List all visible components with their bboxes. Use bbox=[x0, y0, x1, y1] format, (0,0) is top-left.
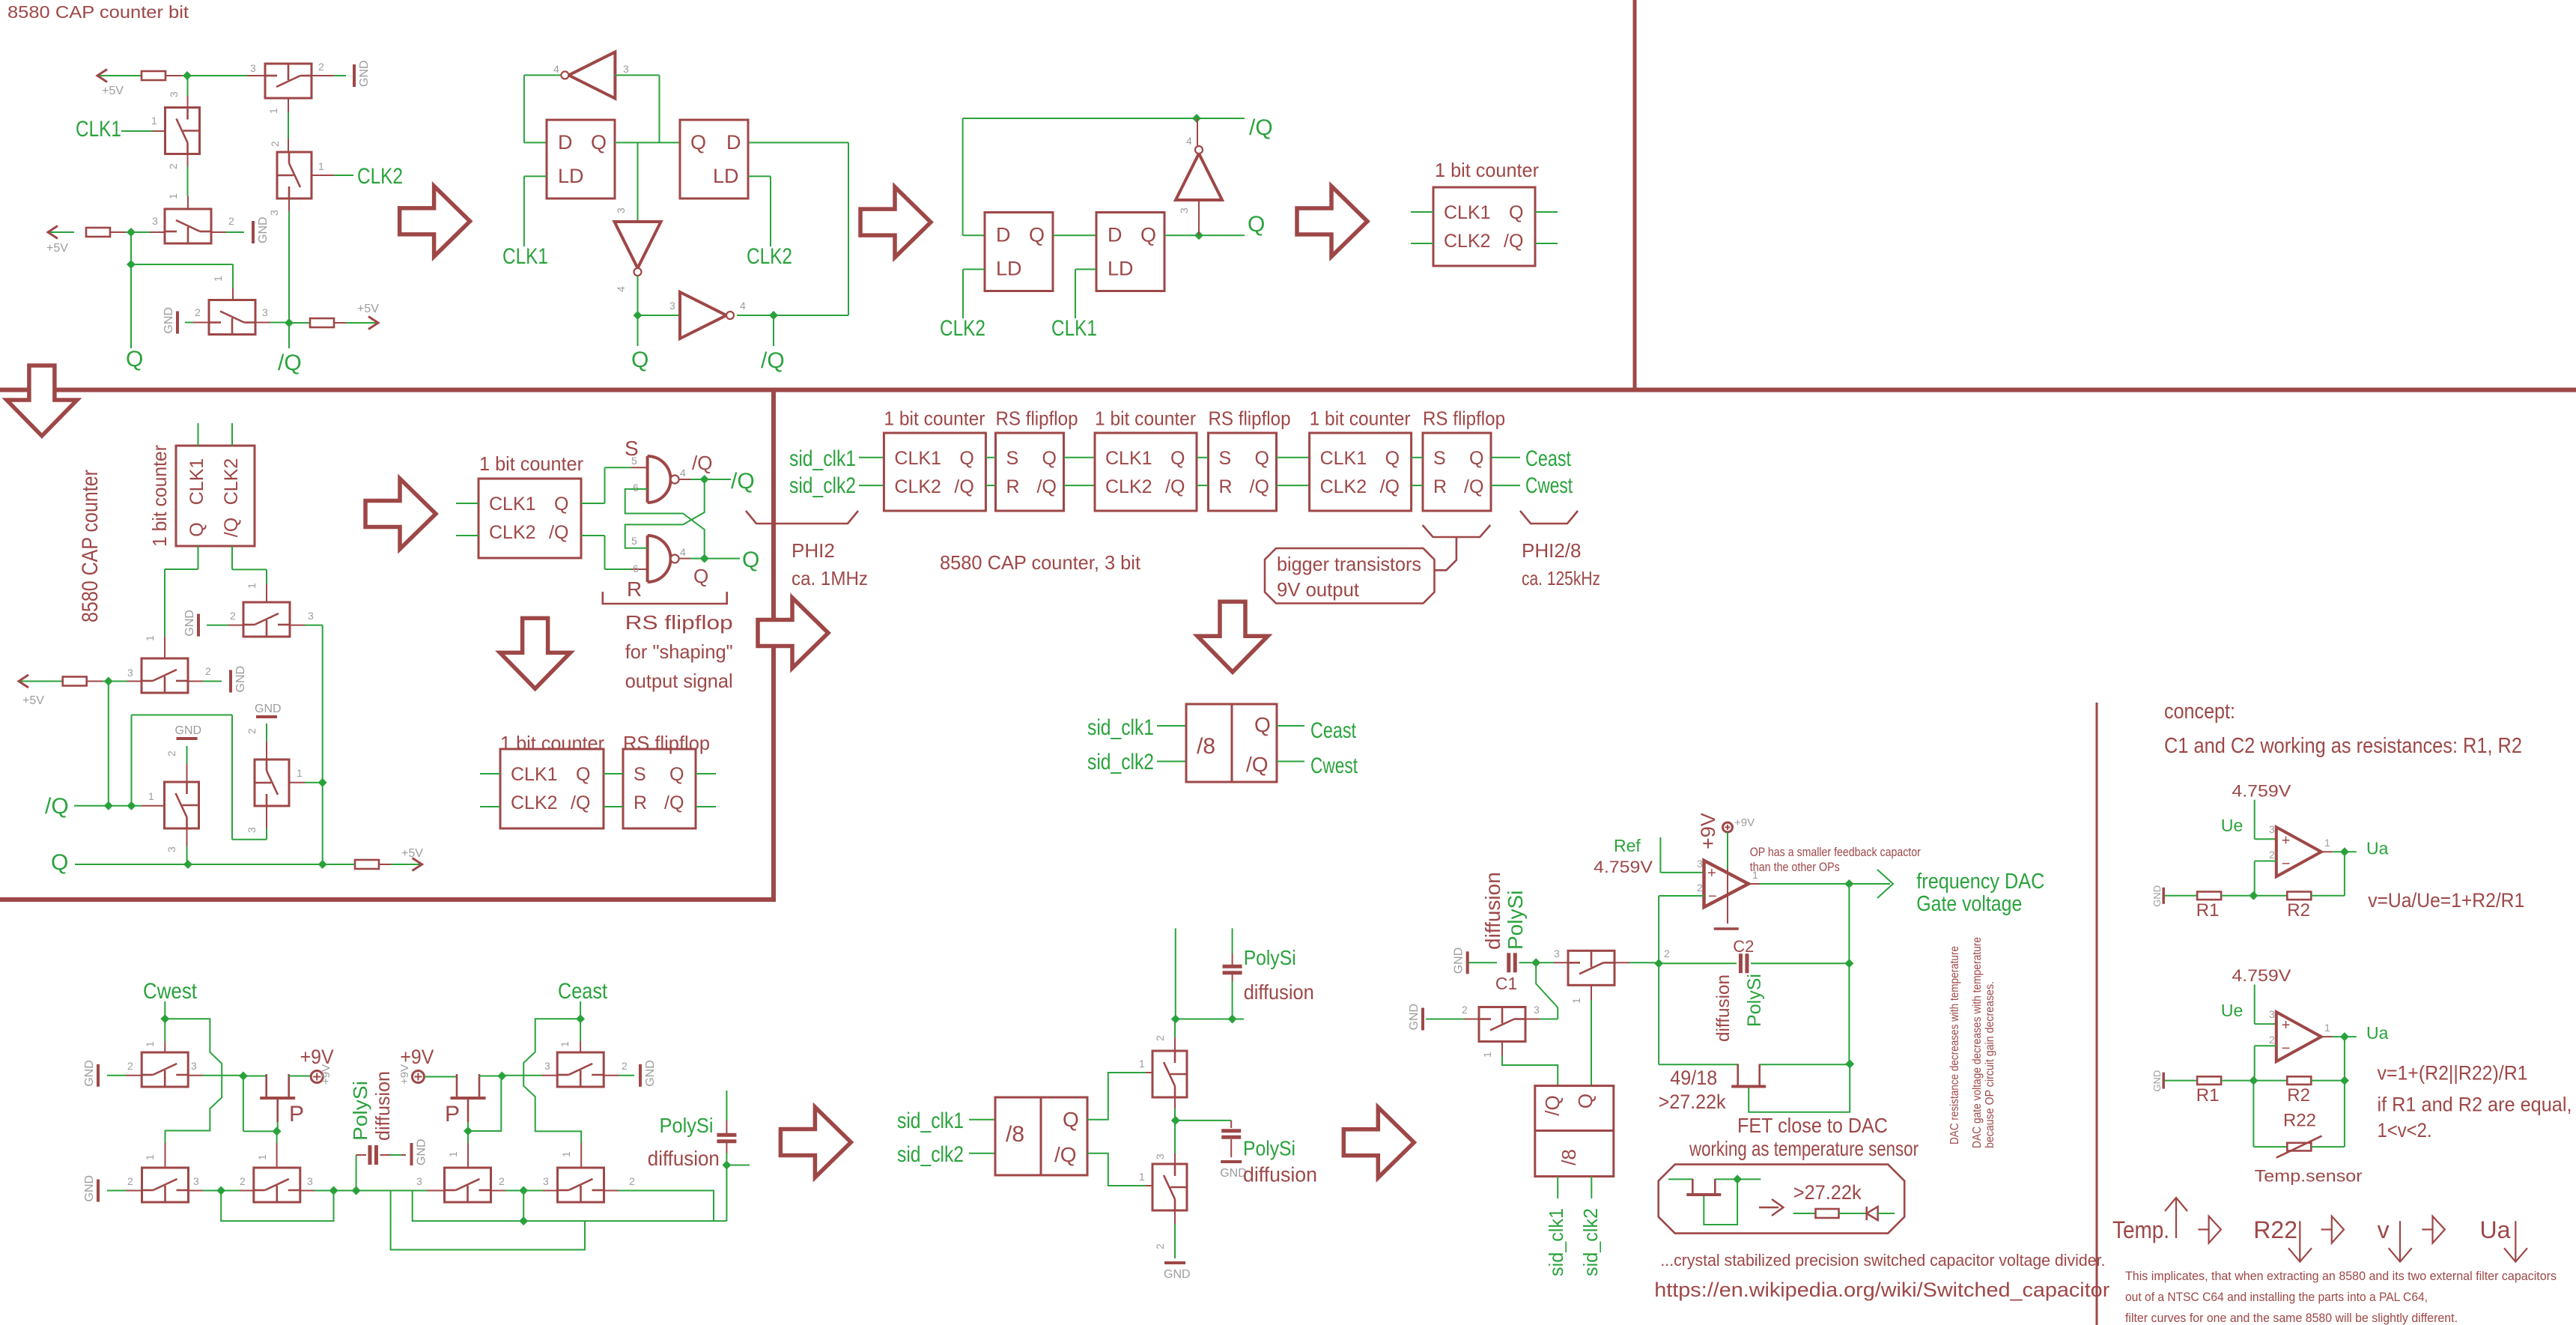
wire brace PHI2/8 bbox=[1520, 511, 1578, 524]
transistor switch O bbox=[254, 1168, 300, 1202]
block octagon temperature sensor note bbox=[1659, 1165, 1905, 1234]
wire switch O pin3 to junction J5 bbox=[300, 1190, 315, 1192]
svg-text:2: 2 bbox=[2269, 1034, 2275, 1046]
ground GND-P1 bbox=[639, 1064, 642, 1087]
wire /Q rail down to latch3 D bbox=[962, 118, 964, 235]
wire latch1 LD to CLK1 bbox=[524, 175, 547, 177]
transistor switch C (CLK1 pass gate) bbox=[165, 108, 200, 154]
svg-text:because OP circuit gain decrea: because OP circuit gain decreases. bbox=[1984, 981, 1996, 1148]
svg-text:GND: GND bbox=[234, 666, 247, 693]
wire switch K pin2 left to GND bbox=[228, 625, 243, 626]
node junction /Q rail bbox=[1192, 114, 1201, 123]
svg-text:1: 1 bbox=[212, 276, 224, 282]
node junction row2 bbox=[127, 228, 136, 237]
svg-text:https://en.wikipedia.org/wiki/: https://en.wikipedia.org/wiki/Switched_c… bbox=[1654, 1279, 2109, 1301]
svg-text:1 bit counter: 1 bit counter bbox=[500, 732, 604, 754]
wire R2 to output vertical bbox=[2311, 1080, 2345, 1082]
svg-text:GND: GND bbox=[255, 703, 282, 715]
svg-text:+: + bbox=[2282, 1017, 2291, 1034]
svg-text:GND: GND bbox=[416, 1138, 428, 1165]
supply arrow +5V row1 bbox=[97, 70, 107, 82]
wire middle cap right to GND bbox=[380, 1154, 391, 1156]
svg-text:C2: C2 bbox=[1733, 937, 1754, 956]
wire counter Q to nand S pin5 bbox=[581, 503, 605, 504]
svg-text:than the other OPs: than the other OPs bbox=[1750, 860, 1840, 874]
node junction4 on /Q rail bbox=[285, 318, 294, 327]
node junction output concept bbox=[2340, 1032, 2349, 1041]
svg-text:Cwest: Cwest bbox=[1310, 754, 1358, 778]
block RS flipflop chain1 bbox=[996, 433, 1064, 511]
wire inverter2 output down to Q node bbox=[637, 276, 639, 315]
wire junction to R2 bbox=[2253, 1080, 2287, 1082]
wire div8 /Q to Cwest bbox=[1277, 761, 1304, 762]
svg-text:Q: Q bbox=[669, 764, 684, 785]
svg-text:2: 2 bbox=[127, 1060, 133, 1072]
svg-text:CLK1: CLK1 bbox=[1444, 202, 1491, 223]
svg-text:LD: LD bbox=[1108, 258, 1134, 280]
node junction mini FET bbox=[1733, 1174, 1742, 1183]
wire FET right leg to junction bbox=[1760, 1064, 1850, 1065]
svg-text:Ceast: Ceast bbox=[558, 979, 608, 1004]
wire cross coupling Q to S.6 bbox=[625, 489, 705, 559]
node junction /Q nand bbox=[700, 475, 709, 484]
svg-text:GND: GND bbox=[83, 1175, 96, 1202]
wire stubs counter low left bbox=[480, 773, 500, 774]
svg-text:out of a NTSC C64 and installi: out of a NTSC C64 and installing the par… bbox=[2125, 1290, 2428, 1304]
transistor switch K bbox=[243, 602, 290, 637]
svg-text:diffusion: diffusion bbox=[371, 1071, 394, 1141]
capacitor PolySi right vertical bbox=[717, 1133, 736, 1137]
node junction J8 bbox=[464, 1127, 473, 1136]
wire junction to R2 bbox=[2253, 895, 2287, 897]
svg-text:filter curves for one and the: filter curves for one and the same 8580 … bbox=[2125, 1311, 2458, 1325]
resistor R midleft bbox=[63, 677, 87, 686]
wire switch M pin3 to junction J2 bbox=[188, 1075, 203, 1076]
transistor switch R Ceast bbox=[445, 1168, 491, 1202]
wire junction4 to resistor to +5V arrow right bbox=[289, 322, 310, 324]
resistor R1 concept bbox=[2197, 892, 2221, 900]
arrow A5 down bbox=[500, 618, 571, 688]
svg-text:2: 2 bbox=[2269, 849, 2275, 861]
node junction midleft1 bbox=[104, 677, 113, 686]
svg-text:diffusion: diffusion bbox=[1244, 980, 1314, 1004]
node junction mid row botmid bbox=[1171, 1116, 1180, 1125]
svg-text:Q: Q bbox=[1170, 448, 1185, 469]
svg-text:−: − bbox=[2282, 1040, 2291, 1057]
wire R22 loop bbox=[2253, 1081, 2254, 1147]
wire div8 Q to Ceast bbox=[1277, 725, 1304, 727]
svg-text:1: 1 bbox=[1139, 1058, 1145, 1070]
wire sid_clk2 to counter1 bbox=[859, 485, 884, 486]
wire switch W pin3 bbox=[1540, 1019, 1558, 1020]
block 1 bit counter chain3 bbox=[1310, 433, 1412, 511]
node junction C1 bbox=[1531, 958, 1540, 967]
wire RS3 to Cwest bbox=[1491, 485, 1520, 486]
svg-text:R: R bbox=[627, 577, 642, 601]
wire switch N pin3 to junction J4 bbox=[188, 1190, 203, 1192]
svg-text:D: D bbox=[726, 131, 741, 154]
arrow down after Ua bbox=[2515, 1221, 2516, 1261]
wire Q node down to Q label bbox=[637, 315, 639, 346]
wire junction to switch A bbox=[247, 75, 265, 76]
svg-text:4: 4 bbox=[615, 286, 627, 292]
block div8 rotated symbol botright bbox=[1535, 1086, 1614, 1177]
svg-text:4: 4 bbox=[740, 300, 746, 312]
wire J8 loop to J7 bbox=[468, 1076, 501, 1132]
svg-text:CLK2: CLK2 bbox=[511, 792, 558, 813]
svg-text:sid_clk1: sid_clk1 bbox=[1087, 715, 1154, 740]
svg-text:4.759V: 4.759V bbox=[1594, 858, 1653, 876]
nand gate R bbox=[646, 536, 649, 582]
wire output down to R2 bbox=[2344, 852, 2345, 896]
wire brace PHI2 bbox=[746, 511, 858, 524]
svg-text:1: 1 bbox=[148, 790, 154, 802]
wire switch U pin3 down to junction row bbox=[1174, 1097, 1176, 1109]
capacitor PolySi diffusion bottom botmid bbox=[1221, 1129, 1241, 1133]
supply +9V circle 2 bbox=[412, 1071, 424, 1083]
wire RS2 to counter3 bbox=[1277, 457, 1310, 458]
transistor switch A (top) bbox=[265, 64, 312, 98]
node junction midleft2 on /Q row bbox=[104, 801, 113, 810]
wire switch J pin2 right to GND bbox=[188, 681, 203, 682]
transistor FET 49/18 bbox=[1731, 1085, 1766, 1088]
node junction under cap1 bbox=[1228, 1015, 1237, 1024]
svg-text:sid_clk1: sid_clk1 bbox=[1545, 1208, 1567, 1276]
wire RS1 to counter2 bbox=[1064, 457, 1096, 458]
wire switch K pin3 right to /Q drop rail bbox=[290, 625, 305, 626]
ground GND cap2 bbox=[1221, 1160, 1242, 1163]
transistor switch U bbox=[1152, 1051, 1187, 1097]
svg-text:GND: GND bbox=[644, 1060, 657, 1087]
transistor switch M bbox=[142, 1052, 188, 1087]
wire - top right vertical divider bbox=[1633, 0, 1637, 390]
wire junction3 loop up right down to switch I pin3 bbox=[131, 715, 133, 806]
wire junction1 down to /Q row bbox=[108, 682, 109, 806]
wire switch B pin1 to CLK2 label bbox=[312, 175, 334, 176]
svg-text:CLK1: CLK1 bbox=[1051, 316, 1097, 341]
transistor switch N bbox=[142, 1168, 189, 1202]
svg-text:CLK1: CLK1 bbox=[894, 448, 941, 469]
wire latch4 LD to CLK1 bbox=[1075, 269, 1096, 270]
svg-text:3: 3 bbox=[1154, 1153, 1166, 1159]
svg-text:/Q: /Q bbox=[571, 792, 590, 813]
capacitor PolySi/diffusion middle bbox=[368, 1145, 371, 1165]
node junction J4 bbox=[216, 1186, 225, 1195]
wire switch H pin3 down to Q rail bbox=[186, 828, 188, 846]
transistor switch P1 Ceast bbox=[557, 1052, 604, 1087]
wire diode right bbox=[1878, 1213, 1895, 1214]
svg-text:1<v<2.: 1<v<2. bbox=[2378, 1119, 2432, 1141]
inverter U2A pointing left (feedback) bbox=[568, 52, 615, 98]
wire mini FET drain junction bbox=[1715, 1178, 1761, 1180]
svg-text:2: 2 bbox=[230, 610, 236, 622]
svg-text:>27.22k: >27.22k bbox=[1659, 1091, 1726, 1113]
svg-text:1 bit counter: 1 bit counter bbox=[1095, 407, 1196, 430]
svg-text:3: 3 bbox=[127, 667, 133, 679]
node junction row1 bbox=[183, 71, 192, 80]
svg-text:/8: /8 bbox=[1006, 1122, 1024, 1147]
svg-text:CLK2: CLK2 bbox=[940, 316, 985, 341]
wire C2 row right segment bbox=[1751, 962, 1849, 964]
svg-text:1: 1 bbox=[447, 1151, 459, 1157]
svg-text:1: 1 bbox=[1570, 998, 1582, 1004]
svg-text:S: S bbox=[1433, 448, 1446, 469]
svg-text:2: 2 bbox=[228, 215, 234, 227]
svg-text:3: 3 bbox=[152, 215, 158, 227]
wire R2 to output vertical bbox=[2311, 895, 2345, 897]
node junction Q section2 bbox=[634, 311, 643, 320]
transistor mini FET in octagon bbox=[1668, 1178, 1692, 1180]
D latch 4 bbox=[1096, 213, 1164, 291]
wire latch3 Q to latch4 D bbox=[1053, 234, 1096, 236]
svg-text:R: R bbox=[1219, 476, 1233, 497]
svg-text:Q: Q bbox=[554, 494, 568, 515]
svg-text:sid_clk1: sid_clk1 bbox=[897, 1109, 964, 1133]
arrow outline right 2 bbox=[2321, 1228, 2332, 1230]
wire /Q pin down-right to switch K pin1 bbox=[231, 546, 233, 569]
arrow up after Temp bbox=[2175, 1198, 2177, 1238]
ground GND-M mirrored bbox=[97, 1064, 100, 1087]
wire div8c sid_clk2 pin down bbox=[1591, 1176, 1592, 1198]
svg-text:Q: Q bbox=[1248, 212, 1265, 237]
svg-text:+: + bbox=[2282, 832, 2291, 849]
svg-text:3: 3 bbox=[1554, 947, 1560, 959]
wire C1 to junction bbox=[1519, 962, 1537, 963]
svg-text:Q: Q bbox=[126, 347, 143, 372]
svg-text:2: 2 bbox=[195, 306, 201, 318]
svg-text:1: 1 bbox=[167, 193, 179, 199]
wire Ceast down to junction J1b bbox=[580, 1001, 581, 1019]
wire cap2 down to GND bbox=[1230, 1121, 1232, 1128]
svg-text:R1: R1 bbox=[2196, 1085, 2220, 1106]
svg-text:Q: Q bbox=[1140, 224, 1156, 246]
wire junction row2 down and right to switch E pin1 bbox=[130, 232, 132, 264]
wire C2 right junction down to FET junction bbox=[1848, 963, 1850, 1064]
wire J2 to FET1 drain leg bbox=[243, 1076, 267, 1077]
svg-text:if R1 and R2 are equal,: if R1 and R2 are equal, bbox=[2378, 1094, 2572, 1116]
node junction R row bbox=[2249, 891, 2258, 900]
svg-text:3: 3 bbox=[191, 1060, 197, 1072]
wire switch P1 pin2 to GND right bbox=[604, 1075, 619, 1076]
wire nand R output to Q bbox=[678, 558, 690, 560]
capacitor PolySi diffusion top botmid bbox=[1223, 965, 1242, 968]
svg-text:Q: Q bbox=[1254, 713, 1271, 736]
svg-text:2: 2 bbox=[246, 728, 258, 734]
svg-text:Q: Q bbox=[1385, 448, 1400, 469]
svg-text:2: 2 bbox=[1154, 1243, 1166, 1249]
ground GND-H top bbox=[177, 737, 198, 740]
node junction output concept bbox=[2340, 847, 2349, 856]
svg-text:GND: GND bbox=[183, 610, 196, 637]
wire output to frequency DAC arrow bbox=[1749, 883, 1760, 885]
wire counter /Q to nand R pin6 bbox=[581, 535, 605, 536]
svg-text:diffusion: diffusion bbox=[1481, 872, 1504, 950]
svg-text:1: 1 bbox=[560, 1151, 572, 1157]
node junction midleft3 bbox=[127, 801, 136, 810]
supply arrow +5V midleft row bbox=[19, 675, 28, 688]
ground concept bbox=[2162, 888, 2165, 904]
transistor FET1 P-channel bbox=[260, 1097, 295, 1100]
node junction J5b cap tap bbox=[352, 1186, 361, 1195]
svg-text:diffusion: diffusion bbox=[1713, 974, 1734, 1042]
svg-text:+5V: +5V bbox=[102, 85, 124, 97]
svg-text:diffusion: diffusion bbox=[648, 1147, 720, 1170]
block 1 bit counter chain2 bbox=[1095, 433, 1197, 511]
svg-text:1: 1 bbox=[144, 1154, 156, 1160]
svg-text:CLK1: CLK1 bbox=[489, 494, 536, 515]
wire switch V pin2 down to GND bbox=[1174, 1210, 1176, 1224]
block RS flipflop chain3 bbox=[1423, 433, 1491, 511]
svg-text:/Q: /Q bbox=[1380, 476, 1400, 497]
wire J2 down to J6 row bbox=[243, 1076, 244, 1132]
capacitor C1 bbox=[1507, 953, 1510, 972]
wire R22 to right vertical bbox=[2311, 1146, 2345, 1147]
wire counter stubs bbox=[1411, 211, 1433, 213]
svg-text:CLK1: CLK1 bbox=[186, 458, 207, 506]
svg-text:3: 3 bbox=[308, 610, 314, 622]
wire switch A pin1 down to switch B bbox=[288, 98, 289, 112]
wire - input from feedback bbox=[2255, 1045, 2276, 1046]
wire switch E pin2 left to GND bbox=[193, 322, 209, 324]
arrow A-TL down crossing divider bbox=[7, 366, 77, 436]
svg-text:/Q: /Q bbox=[1250, 476, 1269, 497]
wire J1 down to switch M pin1 bbox=[164, 1019, 165, 1041]
node junction J9 bbox=[519, 1186, 528, 1195]
arrow outline right 1 bbox=[2198, 1228, 2208, 1230]
arrow A1 to next abstraction bbox=[400, 186, 470, 256]
wire /Q node down to /Q label bbox=[773, 315, 774, 346]
svg-text:2: 2 bbox=[240, 1175, 246, 1187]
wire /Q label to junctions bbox=[74, 805, 142, 807]
wire +9V down through opamp to GND bbox=[1727, 832, 1728, 869]
wire /Q drop rail down bbox=[322, 625, 323, 864]
transistor FET2 P-channel bbox=[451, 1097, 486, 1100]
resistor R2 concept bbox=[2287, 1076, 2311, 1085]
svg-text:2: 2 bbox=[1697, 882, 1703, 894]
wire junction right to cap1 bbox=[1176, 1019, 1233, 1020]
transistor switch D bbox=[165, 209, 211, 243]
block div8 symbol bbox=[1186, 704, 1277, 782]
inverter U2C pointing right bbox=[680, 292, 726, 339]
svg-text:6: 6 bbox=[633, 563, 639, 574]
svg-text:3: 3 bbox=[615, 207, 627, 213]
ground GND-J bbox=[229, 670, 232, 693]
wire switch P1 pin3 to junction J7 bbox=[542, 1075, 558, 1076]
svg-text:Q: Q bbox=[1029, 224, 1045, 246]
transistor switch T Ceast bbox=[558, 1168, 604, 1202]
node junction C2 left bbox=[1654, 959, 1663, 968]
node junction right cap bbox=[722, 1161, 731, 1170]
svg-text:CLK1: CLK1 bbox=[1320, 448, 1367, 469]
wire junction right to cap2 bbox=[1176, 1120, 1231, 1121]
svg-text:for "shaping": for "shaping" bbox=[625, 640, 733, 663]
svg-text:GND: GND bbox=[1408, 1004, 1421, 1031]
wire snake J1b to switch T pin1 bbox=[523, 1019, 581, 1142]
svg-text:3: 3 bbox=[1697, 858, 1703, 870]
svg-text:2: 2 bbox=[205, 665, 211, 677]
svg-text:RS flipflop: RS flipflop bbox=[1423, 407, 1505, 430]
svg-text:Temp.: Temp. bbox=[2112, 1216, 2169, 1243]
resistor R Q rail bbox=[355, 860, 379, 869]
svg-text:LD: LD bbox=[713, 165, 739, 187]
ground GND W mirrored bbox=[1421, 1008, 1424, 1031]
wire - middle-left box right border bbox=[771, 390, 776, 900]
svg-text:8580 CAP counter bit: 8580 CAP counter bit bbox=[7, 2, 189, 22]
svg-text:9V output: 9V output bbox=[1277, 578, 1360, 601]
node junction J2 drain node bbox=[239, 1072, 248, 1081]
svg-text:Q: Q bbox=[1063, 1108, 1079, 1131]
svg-text:1 bit counter: 1 bit counter bbox=[1310, 407, 1411, 430]
wire C2 left junction down to FET 49/18 bbox=[1658, 963, 1659, 1064]
svg-text:5: 5 bbox=[631, 455, 637, 467]
wire switch D pin2 to GND bbox=[211, 231, 226, 233]
svg-text:+9V: +9V bbox=[1697, 813, 1719, 849]
ground bar opamp bbox=[1714, 927, 1739, 930]
wire C2 row left segment bbox=[1659, 962, 1737, 964]
svg-text:RS flipflop: RS flipflop bbox=[623, 732, 710, 754]
node junction Q rail right bbox=[318, 860, 327, 869]
wire counter clk stubs up bbox=[198, 423, 199, 446]
wire /Q feedback rail section3 bbox=[963, 118, 1245, 119]
svg-text:Q: Q bbox=[51, 850, 68, 875]
svg-text:diffusion: diffusion bbox=[1243, 1162, 1317, 1186]
node junction Q section3 bbox=[1194, 231, 1203, 240]
ground GND switch V bbox=[1164, 1261, 1185, 1264]
resistor R row2 bbox=[86, 228, 110, 237]
wire J4 to switch O pin2 bbox=[221, 1190, 240, 1192]
svg-text:1: 1 bbox=[2324, 1022, 2330, 1034]
supply +9V circle 1 bbox=[311, 1071, 323, 1083]
wire counter1 to RS1 bbox=[985, 457, 995, 458]
svg-text:ca. 1MHz: ca. 1MHz bbox=[792, 567, 868, 589]
arrow A2 to next abstraction bbox=[860, 187, 931, 258]
svg-text:CLK1: CLK1 bbox=[502, 244, 548, 269]
svg-text:5: 5 bbox=[631, 535, 637, 547]
wire tee up to inverter1 input bbox=[659, 75, 660, 142]
supply +9V circle opamp bbox=[1723, 822, 1733, 832]
wire switch R pin2 to junction J9 bbox=[490, 1190, 505, 1192]
svg-text:PolySi: PolySi bbox=[1504, 891, 1527, 950]
wire - horizontal section divider bbox=[0, 388, 2576, 392]
svg-text:4: 4 bbox=[680, 467, 686, 479]
resistor R2 concept bbox=[2287, 892, 2311, 900]
svg-text:1: 1 bbox=[559, 1041, 571, 1047]
op-amp U5 bbox=[1704, 861, 1749, 907]
svg-text:LD: LD bbox=[558, 165, 584, 187]
wire GND to C1 bbox=[1469, 962, 1498, 963]
wire inverter4 input from Q bbox=[1198, 200, 1200, 235]
svg-text:/Q: /Q bbox=[221, 518, 242, 537]
svg-text:D: D bbox=[996, 224, 1011, 246]
wire switch R pin3 left stub bbox=[427, 1190, 445, 1192]
wire tee down to inverter2 input bbox=[637, 142, 639, 222]
svg-text:CLK2: CLK2 bbox=[221, 458, 242, 506]
svg-text:Ue: Ue bbox=[2221, 1001, 2243, 1020]
node junction C2 right bbox=[1844, 959, 1853, 968]
ground GND mid cap bbox=[410, 1143, 413, 1165]
transistor switch I bbox=[255, 759, 289, 806]
inverter U2B pointing down bbox=[615, 222, 661, 268]
svg-text:+9V: +9V bbox=[1734, 816, 1755, 829]
node junction J9b on low rail bbox=[519, 1216, 528, 1225]
resistor R22 thermistor bbox=[2287, 1143, 2311, 1151]
wire inverter4 output to /Q rail bbox=[1197, 118, 1198, 146]
svg-text:CLK2: CLK2 bbox=[489, 522, 536, 543]
svg-text:8580 CAP counter, 3 bit: 8580 CAP counter, 3 bit bbox=[940, 551, 1141, 574]
svg-text:6: 6 bbox=[633, 482, 639, 494]
wire brace bigger transistors bbox=[1423, 525, 1491, 537]
svg-text:D: D bbox=[558, 131, 573, 154]
